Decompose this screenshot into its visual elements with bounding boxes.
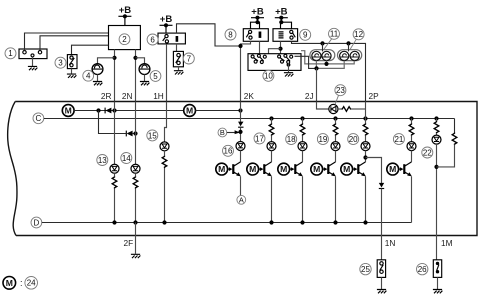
ref label C	[33, 113, 44, 124]
resistor R21	[409, 123, 414, 135]
motor M (second) on sensor line	[184, 105, 196, 117]
svg-text:18: 18	[287, 135, 296, 144]
wire: +B to relay 9 coil and switch	[281, 18, 292, 29]
ground (capacitor 5)	[140, 82, 150, 86]
wire: diode 17 to transistor Q17	[271, 151, 273, 162]
transistor Q16 with motor M	[216, 162, 241, 177]
ref label 11	[329, 28, 340, 39]
indicator diode 19	[331, 142, 340, 151]
ground (capacitor 4)	[93, 82, 103, 86]
wire: Q20 emitter to D rail	[365, 176, 367, 222]
wire 2N: unit 2 to main unit terminal 2N	[135, 50, 137, 102]
wire: diode 23 to resistor R23	[338, 108, 342, 110]
svg-text:10: 10	[264, 72, 273, 81]
diode D25 (cathode down) on 1N wire	[379, 183, 384, 189]
ref label 19	[317, 134, 328, 145]
wire: driver 20 to 1N diode	[366, 158, 382, 184]
junction: driver 21 on C rail	[409, 116, 413, 120]
wire: parallel resistor to 1M junction	[437, 145, 455, 167]
svg-text:1N: 1N	[385, 238, 396, 248]
wire: 2R inside main unit	[114, 102, 116, 165]
wire: unit 10 contact to lamps outer filaments (2J net)	[295, 56, 317, 68]
wire: M sensor line left segment	[74, 110, 184, 112]
junction: 14 chain on D rail / 2F	[133, 220, 137, 224]
diode D1 (cathode left) on M line to 2R	[105, 108, 111, 114]
wire: 2K inside main unit	[240, 102, 242, 122]
ref label 9	[300, 29, 311, 40]
wire: Q21 emitter to D rail end	[411, 176, 413, 222]
svg-text:2F: 2F	[124, 238, 134, 248]
ref label 25	[360, 263, 371, 274]
ref label 10	[263, 70, 274, 81]
wire: M sensor line right segment to 2K	[196, 110, 241, 112]
wire: relay 6 coil to 2K node	[177, 24, 242, 46]
indicator diode 16	[236, 142, 245, 151]
ref label 4	[83, 70, 94, 81]
legend: motor symbol M equals ref 24	[3, 277, 16, 290]
svg-text:6: 6	[150, 35, 155, 44]
wire: capacitor 5 to ground	[144, 75, 146, 82]
junction: chain 22 on C rail	[434, 116, 438, 120]
svg-text:2R: 2R	[101, 91, 112, 101]
wire: branch from M line down to diode D2	[99, 111, 121, 134]
ref label 15	[147, 130, 158, 141]
junction: branch to 2N diode	[96, 108, 100, 112]
svg-text:11: 11	[330, 30, 339, 39]
lamp assembly 12 (dual bulbs)	[338, 50, 362, 61]
svg-text:1H: 1H	[153, 91, 164, 101]
wire: diode 19 to transistor Q19	[335, 151, 337, 162]
wire: switch 1 pin A to control unit 2	[25, 33, 109, 51]
ref label 22	[422, 147, 433, 158]
transistor Q18 with motor M	[278, 162, 303, 177]
wire: C rail to resistor R18	[302, 119, 304, 124]
ref label 18	[286, 134, 297, 145]
resistor R22b (parallel branch)	[452, 133, 457, 145]
svg-text:12: 12	[354, 30, 363, 39]
junction: relay 9 coil / unit 10 second contact	[278, 47, 282, 51]
transistor Q21 with motor M	[387, 162, 412, 177]
wire: relay 6 coil to switch 7	[176, 44, 178, 52]
wire: R19 to diode 19	[335, 136, 337, 142]
wire: diode 18 to transistor Q18	[302, 151, 304, 162]
capacitor 5 (circle symbol)	[139, 64, 150, 75]
ref label 20	[348, 134, 359, 145]
svg-text:17: 17	[255, 134, 264, 143]
wire: Q18 emitter to D rail	[302, 176, 304, 222]
indicator diode 18	[298, 142, 307, 151]
svg-text:2N: 2N	[122, 91, 133, 101]
wire 2K: relay 8 switch to main unit terminal 2K	[241, 41, 251, 101]
+B supply for unit 2	[118, 5, 131, 18]
wire: C rail to resistor R22	[436, 119, 438, 122]
svg-text:M: M	[186, 106, 193, 116]
ground (switch 26)	[433, 290, 443, 294]
main unit box (top, right, bottom edges)	[15, 102, 477, 236]
wire: R18 to diode 18	[302, 136, 304, 142]
wire: C rail to resistor R21	[411, 119, 413, 124]
junction: unit 10 wiper common	[287, 63, 291, 67]
junction: lamp 12 feed	[346, 41, 350, 45]
wire: D rail	[42, 222, 412, 224]
svg-text:4: 4	[86, 72, 91, 81]
diode D2 (cathode left) to 2N wire	[126, 131, 132, 137]
motor M (left) on sensor line	[62, 105, 74, 117]
ref label 3	[55, 57, 66, 68]
junction: driver 18 emitter on D rail	[300, 220, 304, 224]
ref label 23	[335, 85, 346, 96]
svg-text:3: 3	[58, 59, 63, 68]
wire: +B to relay 6 switch	[165, 25, 167, 33]
wire 2F: D rail to ground	[135, 223, 137, 254]
svg-text:M: M	[65, 106, 72, 116]
switch assembly 1 (box with contacts and ground)	[19, 49, 47, 59]
wire: Q16 emitter to node A	[240, 176, 242, 195]
wire: 2N branch to capacitor 5	[136, 58, 145, 64]
relay 9 (coil + switch in box)	[273, 29, 298, 42]
wire: switch 7 to ground	[178, 67, 180, 70]
wire: R17 to diode 17	[271, 136, 273, 142]
svg-text:1: 1	[8, 49, 13, 58]
wire: +B to relay 8 switch and coil	[251, 18, 260, 29]
resistor R17	[269, 123, 274, 135]
wire: diode to node B junction	[240, 127, 242, 142]
junction: driver 17 on C rail	[269, 116, 273, 120]
ref label 14	[121, 153, 132, 164]
wire: R15 to D rail	[164, 168, 166, 223]
lamp assembly 11 (dual bulbs)	[310, 50, 335, 61]
svg-text:13: 13	[98, 156, 107, 165]
wire: branch into unit 10	[269, 49, 281, 54]
junction: B joins 16 chain	[238, 130, 242, 134]
wire: C rail (bus)	[44, 118, 455, 120]
wire: Q19 emitter to D rail	[335, 176, 337, 222]
switch unit 10 (multi contact box)	[248, 54, 301, 71]
resistor R23 (horizontal)	[342, 107, 352, 112]
wire: switch 26 to ground	[437, 277, 439, 289]
junction: relay 6 coil joins 2K wire	[238, 44, 242, 48]
ref label B	[218, 128, 227, 137]
junction: lamp 11 inner filament on line	[324, 62, 328, 66]
junction: 2N wire / capacitor 5 branch	[133, 56, 137, 60]
wire: R14 to D rail	[135, 189, 137, 223]
wire 2P: terminal down to C rail	[365, 102, 367, 119]
svg-text:23: 23	[336, 86, 345, 95]
transistor Q19 with motor M	[311, 162, 336, 177]
svg-text:D: D	[34, 218, 40, 227]
transistor Q20 with motor M	[341, 162, 366, 177]
wire: diode 14 to resistor	[135, 173, 137, 176]
svg-text:2K: 2K	[244, 91, 255, 101]
ref label 2	[119, 34, 130, 45]
switch 25 (box with contacts)	[377, 260, 385, 278]
wire: C rail end down to parallel resistor	[454, 119, 456, 133]
ground (switch 3)	[67, 74, 77, 78]
wire: unit 10 common to ground	[288, 63, 290, 72]
junction: relay 8 feed	[255, 20, 259, 24]
arrowhead into 16 chain	[235, 130, 240, 134]
junction: driver 19 on C rail	[333, 116, 337, 120]
junction: driver 18 on C rail	[300, 116, 304, 120]
svg-text:B: B	[220, 128, 225, 137]
wire: diode 15 to resistor	[164, 151, 166, 156]
svg-text:C: C	[36, 114, 42, 123]
junction: 15 chain on D rail	[162, 220, 166, 224]
resistor R15	[162, 156, 167, 168]
indicator diode 14	[131, 164, 140, 173]
diode D16 (cathode down) on 2K	[238, 122, 243, 128]
indicator diode 13	[110, 164, 119, 173]
svg-text:7: 7	[187, 54, 192, 63]
indicator diode 15	[160, 142, 169, 151]
junction: M line on 2K wire	[238, 108, 242, 112]
+B supply for relay 9	[275, 7, 288, 20]
resistor R14	[133, 176, 138, 188]
junction: relay 9 feed	[279, 20, 283, 24]
resistor R13	[112, 176, 117, 188]
svg-text:21: 21	[394, 135, 403, 144]
svg-text:19: 19	[318, 135, 327, 144]
wire: relay 9 coil to switch unit 10	[280, 41, 282, 53]
wire: diode D2 to 2N wire	[121, 133, 136, 135]
wire: C rail to resistor R20	[365, 119, 367, 124]
ref label 7	[183, 53, 194, 64]
ground (unit 10)	[284, 73, 294, 77]
ref label 16	[223, 145, 234, 156]
wire: 2R branch to capacitor 4	[98, 58, 115, 64]
wire: lamps outer filament line	[316, 61, 344, 69]
junction: driver 19 emitter on D rail	[333, 220, 337, 224]
switch 3 (box with contacts)	[67, 55, 77, 69]
svg-text:1M: 1M	[441, 238, 453, 248]
svg-text:25: 25	[361, 265, 370, 274]
wire: 1H inside main unit	[165, 102, 167, 143]
leader line for lamp 12	[350, 39, 356, 49]
wire: R23 to 2P vertical	[351, 108, 365, 110]
resistor R22	[434, 121, 439, 133]
wire: R22 to diode 22	[436, 133, 438, 135]
wire: +B to unit 2	[124, 16, 126, 25]
ref label 21	[393, 134, 404, 145]
ref label 24	[25, 277, 38, 290]
wire: switch 1 pin B to control unit 2	[40, 36, 109, 51]
svg-text:A: A	[239, 195, 244, 204]
resistor R19	[333, 123, 338, 135]
wire 2J: lamps to main unit terminal 2J	[316, 68, 318, 101]
svg-text:8: 8	[228, 30, 233, 39]
ground (switch 7)	[174, 71, 184, 75]
wire: Q17 emitter to D rail	[271, 176, 273, 222]
junction: D2 on 2N wire	[133, 131, 137, 135]
indicator diode 21	[407, 142, 416, 151]
wire: relay 8 coil to switch unit 10	[259, 41, 261, 53]
transistor Q17 with motor M	[247, 162, 272, 177]
wire: R21 to diode 21	[411, 136, 413, 142]
leader line for 23	[335, 95, 339, 104]
leader line for lamp 11	[324, 39, 332, 50]
wire 1N: diode to switch 25	[381, 189, 383, 260]
switch 7 (box with contacts)	[173, 51, 183, 66]
junction: 13 chain on D rail	[112, 220, 116, 224]
resistor R18	[300, 123, 305, 135]
ref label 6	[147, 34, 158, 45]
svg-text:22: 22	[423, 148, 432, 157]
wire: 2N inside main unit	[135, 102, 137, 165]
junction: branch to 1N from driver 20	[363, 155, 367, 159]
wire: diode 16 to transistor Q16	[240, 150, 242, 162]
capacitor 4 (circle symbol)	[92, 64, 103, 75]
svg-text:2J: 2J	[305, 91, 314, 101]
svg-text:15: 15	[148, 131, 157, 140]
svg-text:20: 20	[349, 135, 358, 144]
junction: driver 20 on C rail	[363, 116, 367, 120]
control unit U2 (box)	[109, 26, 141, 50]
wire: switch 3 to unit 2	[72, 45, 109, 54]
svg-text:M: M	[6, 278, 13, 288]
indicator diode 17	[267, 142, 276, 151]
wire: feed stub lamp 11	[322, 43, 324, 51]
wire: R13 to D rail	[114, 189, 116, 223]
wire: switch 1 common to ground	[32, 57, 34, 66]
junction: driver 17 emitter on D rail	[269, 220, 273, 224]
ref label 12	[353, 29, 364, 40]
+B supply for relay 8	[251, 7, 264, 20]
ref label 17	[254, 133, 265, 144]
svg-text:2P: 2P	[369, 91, 380, 101]
wire: R20 to diode 20	[365, 136, 367, 142]
junction: parallel resistor rejoins 1M	[434, 165, 438, 169]
junction: M line on 2R wire	[112, 108, 116, 112]
svg-text:14: 14	[122, 154, 131, 163]
wire: 2J terminal into unit to sensor 23	[317, 102, 329, 110]
svg-text:26: 26	[418, 265, 427, 274]
ground (switch 25)	[377, 290, 387, 294]
wire: diode 13 to resistor	[114, 173, 116, 176]
junction: driver 20 emitter on D rail	[363, 220, 367, 224]
svg-text::: :	[20, 278, 23, 288]
resistor R20	[363, 123, 368, 135]
wire: relay 9 switch to lamps feed line	[292, 41, 366, 101]
wire: diode 20 to transistor Q20	[365, 151, 367, 162]
wire: diode 21 to transistor Q21	[411, 151, 413, 162]
wire 2R: unit 2 to main unit terminal 2R	[114, 50, 116, 102]
wire: feed stub lamp 12	[348, 43, 350, 51]
circled diode 23 (cathode left)	[329, 104, 338, 113]
ref label 13	[97, 155, 108, 166]
wire: B arrow line	[227, 132, 235, 134]
svg-text:2: 2	[122, 35, 127, 44]
junction: 2R wire / capacitor 4 branch	[112, 56, 116, 60]
ref label D	[31, 217, 42, 228]
junction: lamp 11 feed	[320, 41, 324, 45]
wire: unit 10 to lamps inner filaments	[301, 51, 354, 64]
switch 26 (box with contacts)	[433, 260, 441, 278]
svg-text:5: 5	[153, 72, 158, 81]
wire: switch 3 to ground	[71, 69, 73, 74]
wire: switch 25 to ground	[381, 277, 383, 289]
indicator diode 20	[361, 142, 370, 151]
ref label 1	[5, 48, 16, 59]
svg-text:9: 9	[303, 31, 308, 40]
ref label 26	[417, 263, 428, 274]
svg-text:16: 16	[224, 147, 233, 156]
ground (2F)	[131, 254, 141, 258]
wire: C rail to resistor R17	[271, 119, 273, 124]
relay 6 (switch + coil in box)	[158, 33, 185, 44]
ref label A	[237, 195, 246, 204]
wire: capacitor 4 to ground	[97, 75, 99, 82]
main unit torn left edge	[8, 102, 17, 236]
ground (switch 1)	[28, 66, 38, 70]
ref label 8	[225, 29, 236, 40]
+B supply for relay 6	[160, 14, 173, 27]
indicator diode 22	[432, 135, 441, 144]
junction: 2J node	[314, 66, 318, 70]
relay 8 (switch + coil in box)	[243, 29, 268, 42]
wire: C rail to resistor R19	[335, 119, 337, 124]
wire 1H: relay 6 switch to main unit terminal 1H	[166, 44, 168, 102]
wire 1M: diode 22 down to switch 26	[436, 144, 438, 260]
svg-text:24: 24	[27, 279, 36, 288]
ref label 5	[150, 71, 161, 82]
